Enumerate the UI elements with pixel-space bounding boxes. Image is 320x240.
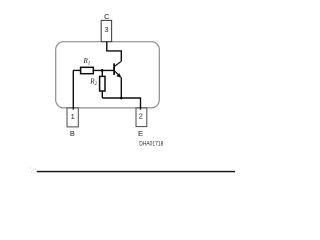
svg-text:3: 3 [104,25,108,34]
svg-text:C: C [104,12,110,21]
svg-text:B: B [70,129,75,138]
svg-text:R1: R1 [83,57,91,67]
svg-text:DHA01718: DHA01718 [139,141,163,148]
svg-text:2: 2 [139,111,143,120]
svg-text:1: 1 [71,112,75,121]
svg-text:E: E [138,129,143,138]
svg-text:R2: R2 [89,78,97,88]
